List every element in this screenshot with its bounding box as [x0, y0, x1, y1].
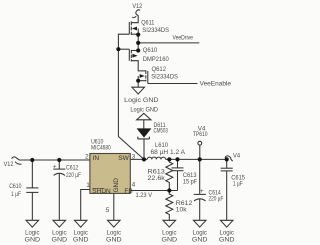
svg-text:4: 4: [132, 182, 136, 189]
svg-text:GND: GND: [73, 237, 89, 244]
svg-text:GND: GND: [113, 178, 120, 193]
svg-text:Logic: Logic: [162, 229, 177, 236]
svg-text:L610: L610: [155, 142, 168, 149]
svg-text:3: 3: [132, 153, 136, 160]
svg-text:VeeDrive: VeeDrive: [173, 35, 194, 42]
svg-text:Logic: Logic: [52, 229, 67, 236]
svg-text:Q611: Q611: [141, 20, 155, 27]
svg-text:SI2334DS: SI2334DS: [142, 27, 169, 34]
svg-text:GND: GND: [25, 237, 41, 244]
svg-text:V4: V4: [233, 153, 240, 160]
svg-text:1.23 V: 1.23 V: [136, 192, 153, 199]
svg-text:GND: GND: [52, 237, 68, 244]
svg-text:+: +: [200, 188, 204, 195]
svg-text:Q610: Q610: [143, 47, 158, 54]
svg-text:VeeEnable: VeeEnable: [200, 81, 232, 88]
svg-text:2: 2: [85, 153, 89, 160]
svg-text:Logic: Logic: [220, 229, 235, 236]
svg-text:15 pF: 15 pF: [183, 178, 197, 185]
svg-text:5: 5: [106, 207, 110, 214]
svg-text:10k: 10k: [176, 207, 188, 214]
svg-text:FB: FB: [124, 188, 132, 195]
svg-text:Logic: Logic: [74, 229, 89, 236]
svg-text:SW: SW: [118, 155, 129, 162]
svg-text:TP610: TP610: [193, 131, 208, 138]
svg-text:Logic: Logic: [25, 229, 40, 236]
svg-text:GND: GND: [219, 237, 235, 244]
svg-text:V12: V12: [4, 161, 14, 168]
svg-text:GND: GND: [162, 237, 178, 244]
svg-text:Logic GND: Logic GND: [124, 97, 159, 104]
svg-text:IN: IN: [93, 155, 100, 162]
svg-text:Logic GND: Logic GND: [130, 106, 158, 113]
svg-text:1 µF: 1 µF: [233, 180, 243, 187]
svg-text:Logic: Logic: [193, 229, 208, 236]
svg-text:22.6k: 22.6k: [148, 175, 166, 182]
svg-text:68 µH 1.2 A: 68 µH 1.2 A: [151, 149, 186, 156]
svg-text:DMP2160: DMP2160: [143, 56, 169, 63]
svg-text:CM503: CM503: [154, 128, 169, 135]
svg-text:1 µF: 1 µF: [11, 191, 21, 198]
svg-text:GND: GND: [106, 237, 122, 244]
svg-text:GND: GND: [192, 237, 208, 244]
svg-text:220 µF: 220 µF: [209, 196, 224, 203]
svg-text:+: +: [53, 163, 57, 170]
svg-text:V12: V12: [132, 3, 142, 10]
svg-text:Q612: Q612: [152, 66, 167, 73]
svg-text:C610: C610: [9, 183, 22, 190]
svg-text:SHDN: SHDN: [92, 188, 111, 195]
svg-text:Logic: Logic: [107, 229, 122, 236]
svg-text:C612: C612: [66, 165, 79, 172]
svg-text:220 µF: 220 µF: [66, 172, 81, 179]
svg-text:1: 1: [86, 182, 90, 189]
svg-text:MIC4680: MIC4680: [91, 145, 111, 152]
svg-text:SI2334DS: SI2334DS: [151, 74, 178, 81]
